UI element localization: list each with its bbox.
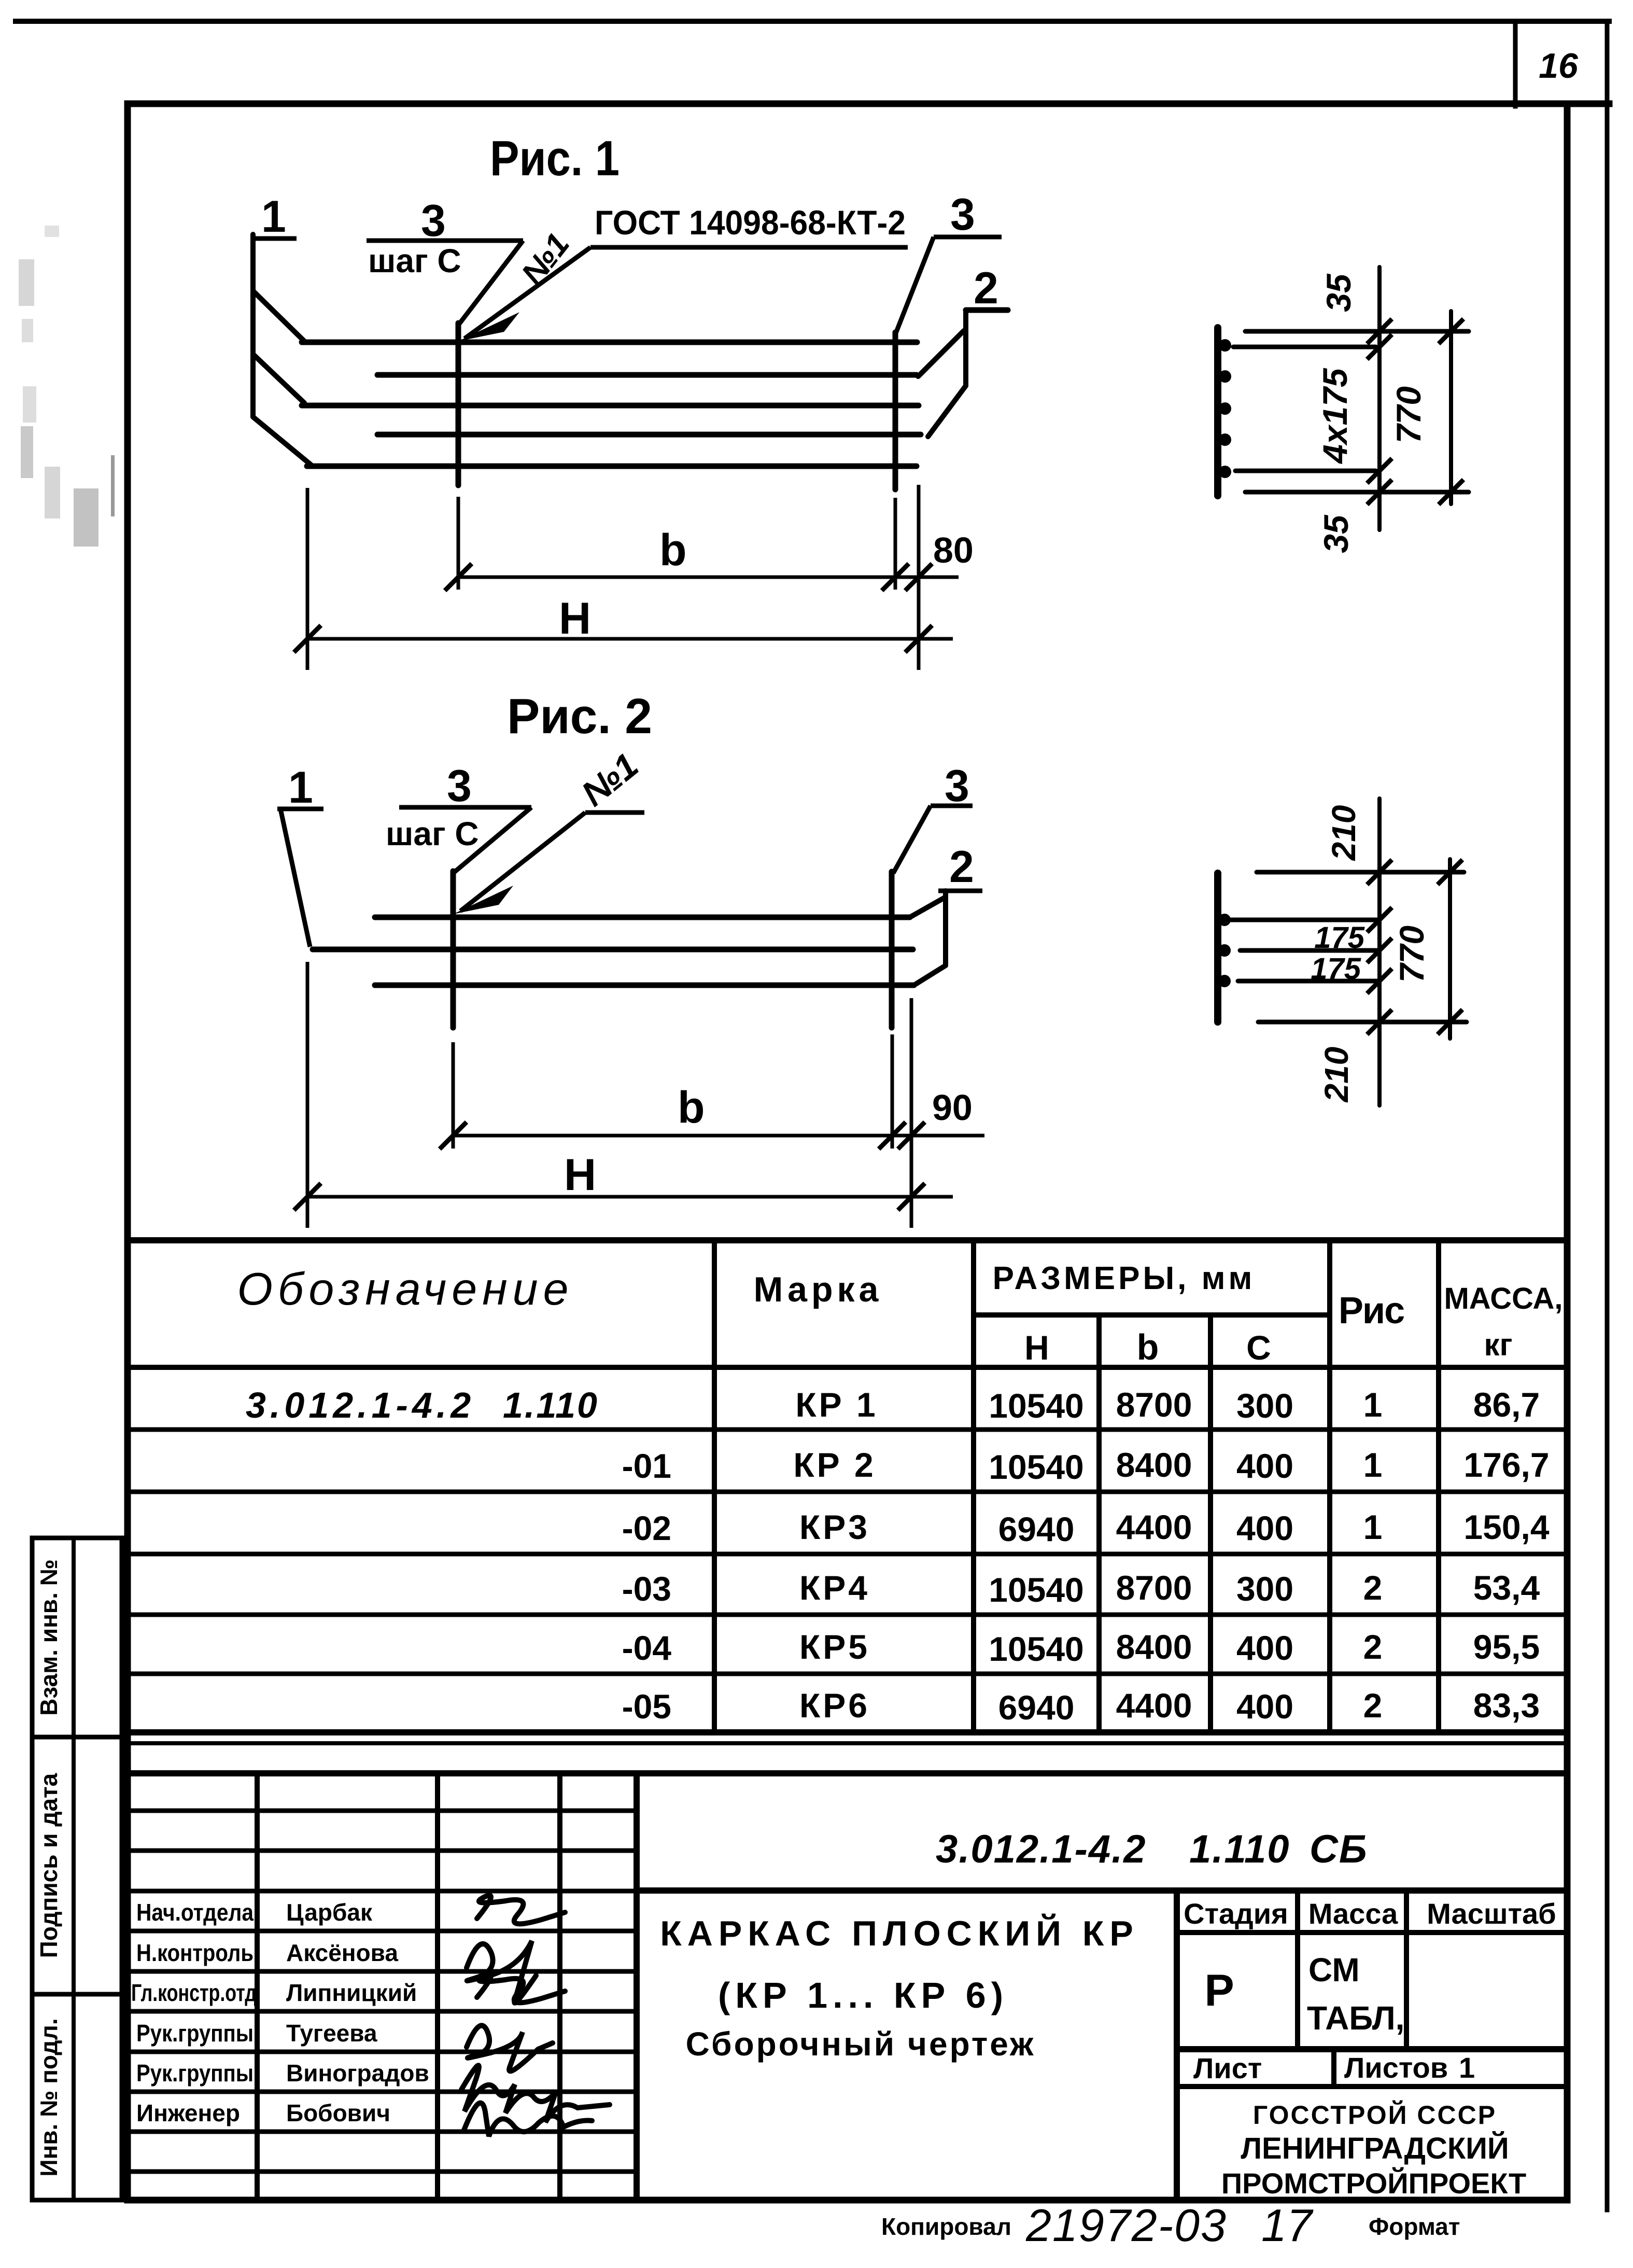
tick H right (fig1) (905, 625, 932, 652)
svg-text:КР3: КР3 (799, 1508, 870, 1546)
svg-text:2: 2 (1363, 1569, 1383, 1607)
row KP2 (622, 1446, 1550, 1486)
svg-text:1: 1 (1459, 2051, 1475, 2084)
tick 210 bottom (detail 2) (1367, 1010, 1392, 1034)
svg-text:175: 175 (1314, 921, 1365, 955)
tick 175 first (detail 2) (1367, 907, 1392, 932)
bottom edge line (detail 1) (1245, 490, 1469, 495)
svg-text:Взам. инв. №: Взам. инв. № (35, 1559, 62, 1716)
signoff row line 10 (128, 2169, 637, 2174)
signoff row line 9 (128, 2130, 637, 2134)
dimension line 770 (detail 2) (1448, 859, 1452, 1039)
svg-text:10540: 10540 (989, 1571, 1084, 1609)
svg-text:3: 3 (950, 190, 975, 240)
sheet number box divider (1513, 21, 1518, 106)
bar 1 hook diagonal to bar E (253, 417, 313, 466)
dimension line 210/175/175/210 (detail 2) (1377, 799, 1382, 1105)
svg-text:10540: 10540 (989, 1448, 1084, 1486)
signoff row line 6 (128, 2009, 637, 2014)
left margin cell Vzam inv (32, 1538, 122, 1737)
svg-text:3.012.1-4.2: 3.012.1-4.2 (936, 1827, 1147, 1871)
svg-text:Листов: Листов (1344, 2051, 1448, 2084)
table bottom border (128, 1729, 1567, 1735)
weld leader with arrow (fig2) (460, 813, 585, 911)
table top border (128, 1237, 1567, 1243)
svg-text:1: 1 (1363, 1385, 1383, 1424)
svg-text:770: 770 (1389, 386, 1428, 443)
svg-text:Сборочный чертеж: Сборочный чертеж (686, 2025, 1036, 2063)
bar 1 hook diagonal to bar A (253, 291, 304, 341)
svg-text:СБ: СБ (1310, 1827, 1368, 1871)
svg-text:Обозначение: Обозначение (237, 1263, 573, 1314)
svg-text:8400: 8400 (1116, 1446, 1192, 1484)
bar 2 Z diagonal upper (fig2) (910, 897, 946, 917)
tick 90 right (fig2) (898, 1122, 925, 1149)
list row bottom line (1177, 2084, 1567, 2089)
table column C/Ris (1327, 1240, 1332, 1732)
extension line 80 right (fig1) (917, 485, 921, 670)
svg-text:Царбак: Царбак (286, 1899, 373, 1926)
drawing frame bottom border (128, 2197, 1567, 2204)
line below table (128, 1741, 1567, 1745)
svg-text:ГОСТ 14098-68-КТ-2: ГОСТ 14098-68-КТ-2 (595, 203, 906, 242)
svg-text:53,4: 53,4 (1473, 1569, 1540, 1607)
svg-text:b: b (678, 1083, 705, 1132)
svg-text:1: 1 (1363, 1446, 1383, 1484)
table row line 4 (128, 1613, 1567, 1617)
tick 770 bottom (detail 2) (1438, 1010, 1462, 1034)
longitudinal bar B (fig1) (377, 372, 917, 378)
left margin cell Inv no podl (32, 1994, 122, 2200)
longitudinal bar C (fig1) (302, 403, 919, 409)
svg-text:ПРОМСТРОЙПРОЕКТ: ПРОМСТРОЙПРОЕКТ (1221, 2167, 1526, 2200)
svg-text:770: 770 (1392, 926, 1431, 983)
svg-text:1: 1 (288, 763, 313, 813)
dimension line H (fig2) (307, 1195, 953, 1199)
table column b/C (1208, 1315, 1213, 1732)
svg-text:1.110: 1.110 (1189, 1827, 1290, 1871)
svg-text:Инженер: Инженер (136, 2099, 240, 2126)
signoff column divider 1 (255, 1773, 260, 2200)
svg-text:Гл.констр.отд: Гл.констр.отд (131, 1979, 257, 2006)
signoff row line 2 (128, 1849, 637, 1853)
longitudinal bar D (fig1) (377, 432, 921, 438)
rebar row line 2 (detail 2) (1240, 948, 1379, 953)
list/listov divider (1331, 2049, 1336, 2087)
svg-text:1: 1 (261, 192, 286, 242)
transverse rod left (fig1) (456, 323, 461, 485)
signoff row line 7 (128, 2050, 637, 2054)
svg-text:21972-03: 21972-03 (1025, 2200, 1227, 2251)
svg-text:Рис. 2: Рис. 2 (507, 689, 652, 744)
row KP1 (246, 1385, 1540, 1425)
svg-text:КАРКАС ПЛОСКИЙ КР: КАРКАС ПЛОСКИЙ КР (660, 1913, 1138, 1953)
svg-text:Копировал: Копировал (881, 2213, 1011, 2240)
tick 175 second (detail 2) (1367, 938, 1392, 963)
tick bottom 35 (detail 1) (1367, 480, 1392, 505)
dimension line 770 (detail 1) (1449, 311, 1453, 504)
rebar row line 3 (detail 2) (1238, 979, 1379, 984)
svg-text:(КР 1... КР 6): (КР 1... КР 6) (718, 1975, 1008, 2015)
svg-text:Липницкий: Липницкий (286, 1979, 417, 2006)
longitudinal bar middle (fig2) (313, 947, 913, 953)
svg-text:СМ: СМ (1308, 1951, 1360, 1989)
svg-text:1: 1 (1363, 1508, 1383, 1546)
svg-text:-01: -01 (622, 1447, 671, 1485)
svg-text:2: 2 (1363, 1686, 1383, 1725)
svg-text:3: 3 (447, 761, 472, 811)
top edge line (detail 1) (1245, 329, 1469, 334)
rebar dot 2 (detail 1) (1219, 370, 1231, 383)
first rebar row line (detail 1) (1233, 345, 1376, 349)
row KP3 (622, 1508, 1550, 1548)
svg-text:КР4: КР4 (799, 1569, 870, 1607)
row KP4 (622, 1569, 1540, 1609)
svg-text:35: 35 (1319, 273, 1358, 312)
svg-text:175: 175 (1311, 952, 1361, 986)
tick 770 top (detail 2) (1438, 860, 1462, 885)
last rebar row line (detail 1) (1235, 469, 1376, 473)
svg-text:83,3: 83,3 (1473, 1686, 1540, 1725)
svg-text:300: 300 (1236, 1387, 1293, 1425)
svg-text:-04: -04 (622, 1629, 672, 1667)
tick b right (fig2) (879, 1122, 906, 1149)
svg-text:10540: 10540 (989, 1630, 1084, 1668)
bar 2 Z vertical (fig1) (963, 310, 968, 386)
svg-text:Лист: Лист (1193, 2052, 1262, 2084)
svg-text:1.110: 1.110 (503, 1385, 599, 1425)
svg-text:17: 17 (1261, 2200, 1314, 2251)
svg-text:b: b (1137, 1327, 1159, 1367)
table sizes sub-header line (974, 1312, 1330, 1318)
svg-text:10540: 10540 (989, 1387, 1084, 1425)
doc number row bottom line (637, 1887, 1567, 1894)
svg-text:4400: 4400 (1116, 1508, 1192, 1546)
tick b left (fig1) (445, 564, 472, 591)
drawing frame right border (1564, 104, 1571, 2200)
rebar dot 1 (detail 2) (1218, 914, 1231, 926)
signoff row line 8 (128, 2090, 637, 2094)
signoff row line 1 (128, 1809, 637, 1813)
page top edge line (16, 19, 1609, 24)
svg-text:95,5: 95,5 (1473, 1628, 1540, 1666)
svg-text:КР 1: КР 1 (795, 1385, 878, 1424)
tick b right (fig1) (882, 564, 909, 591)
cross-section bar (detail 2) (1214, 873, 1221, 1022)
svg-text:Марка: Марка (754, 1270, 883, 1309)
table row line 2 (128, 1490, 1567, 1494)
svg-text:-03: -03 (622, 1570, 671, 1608)
svg-text:6940: 6940 (998, 1510, 1075, 1548)
longitudinal bar 3 bottom (fig2) (375, 983, 914, 988)
svg-text:Масса: Масса (1308, 1897, 1398, 1930)
title block top border (128, 1770, 1567, 1776)
svg-text:80: 80 (933, 530, 974, 570)
longitudinal bar E (fig1) (307, 464, 917, 469)
stadiya massa masshtab section left border (1174, 1891, 1180, 2200)
svg-text:150,4: 150,4 (1463, 1508, 1549, 1546)
svg-text:400: 400 (1236, 1629, 1293, 1667)
svg-text:2: 2 (949, 842, 974, 892)
longitudinal bar 1 top (fig2) (375, 915, 910, 920)
bar 2 Z diagonal lower (fig2) (914, 965, 946, 985)
table row line 5 (128, 1672, 1567, 1676)
rebar dot 5 (detail 1) (1219, 466, 1231, 478)
cross-section bar (detail 1) (1214, 328, 1221, 496)
svg-text:Рук.группы: Рук.группы (136, 2020, 254, 2047)
drawing frame top border (128, 101, 1609, 107)
extension line b right (fig1) (894, 498, 897, 590)
bar 1 hook vertical (fig1) (250, 234, 256, 417)
tick H left (fig2) (294, 1183, 321, 1210)
svg-text:Аксёнова: Аксёнова (286, 1939, 398, 1966)
svg-text:400: 400 (1236, 1687, 1293, 1726)
svg-text:Рис: Рис (1339, 1290, 1404, 1332)
svg-text:КР6: КР6 (799, 1686, 870, 1725)
tick 80 right (fig1) (905, 564, 932, 591)
dimension line b (fig1) (458, 576, 959, 579)
svg-text:300: 300 (1236, 1570, 1293, 1608)
tick 4x175 bottom (detail 1) (1367, 458, 1392, 483)
svg-text:Н: Н (564, 1150, 596, 1200)
extension line H left (fig2) (306, 962, 309, 1228)
svg-text:Масштаб: Масштаб (1427, 1897, 1556, 1930)
svg-text:Бобович: Бобович (286, 2099, 390, 2126)
rebar dot 1 (detail 1) (1219, 339, 1231, 352)
svg-text:Н: Н (1024, 1328, 1049, 1367)
massa/masshtab divider (1404, 1891, 1409, 2049)
svg-text:Формат: Формат (1369, 2213, 1460, 2240)
svg-text:кг: кг (1484, 1327, 1512, 1362)
svg-text:Виноградов: Виноградов (286, 2060, 429, 2087)
transverse rod right (fig1) (893, 332, 898, 489)
svg-text:b: b (659, 525, 687, 575)
svg-text:Рис. 1: Рис. 1 (490, 131, 620, 186)
stadiya/massa divider (1295, 1891, 1300, 2049)
bar 2 Z diagonal lower (fig1) (928, 386, 966, 437)
svg-text:Стадия: Стадия (1184, 1897, 1288, 1930)
extension line b left (fig1) (457, 497, 460, 590)
signoff job titles and names (131, 1899, 429, 2126)
svg-text:Н: Н (559, 594, 591, 643)
transverse rod right (fig2) (889, 872, 895, 1028)
left margin cell Podpis i data (32, 1737, 122, 1994)
title block main left border (634, 1773, 640, 2200)
rebar dot 4 (detail 1) (1219, 433, 1231, 446)
rebar dot 3 (detail 1) (1219, 402, 1231, 415)
tick 210 top (detail 2) (1367, 860, 1392, 885)
svg-text:8700: 8700 (1116, 1385, 1192, 1424)
svg-text:210: 210 (1318, 1047, 1355, 1103)
transverse rod left (fig2) (451, 871, 456, 1028)
svg-text:-05: -05 (622, 1687, 671, 1726)
svg-text:шаг С: шаг С (368, 242, 461, 279)
svg-text:Рук.группы: Рук.группы (136, 2060, 254, 2087)
top edge line (detail 2) (1257, 870, 1464, 875)
svg-text:шаг С: шаг С (386, 815, 479, 852)
drawing frame left border (124, 104, 131, 2200)
svg-text:2: 2 (1363, 1628, 1383, 1666)
leader 1 to bar (fig2) (280, 809, 310, 947)
svg-text:4х175: 4х175 (1316, 368, 1354, 465)
row KP6 (622, 1686, 1540, 1727)
dimension line b (fig2) (453, 1134, 984, 1138)
table column Marka/Razmery (971, 1240, 976, 1732)
svg-text:35: 35 (1317, 514, 1355, 553)
tick 770 top (detail 1) (1439, 319, 1463, 344)
svg-text:210: 210 (1325, 805, 1362, 861)
svg-text:Н.контроль: Н.контроль (136, 1939, 254, 1966)
stadiya section bottom line (1177, 2046, 1567, 2052)
bar 2 Z vertical (fig2) (943, 891, 948, 965)
svg-text:Тугеева: Тугеева (286, 2020, 377, 2047)
svg-text:90: 90 (932, 1087, 973, 1128)
svg-text:КР 2: КР 2 (793, 1446, 876, 1484)
tick 175 third (detail 2) (1367, 969, 1392, 993)
svg-text:Р: Р (1204, 1966, 1234, 2015)
svg-text:-02: -02 (622, 1509, 671, 1547)
dimension line H (fig1) (307, 637, 953, 641)
svg-text:Инв. № подл.: Инв. № подл. (35, 2018, 62, 2176)
rebar dot 3 (detail 2) (1218, 975, 1231, 987)
table row line 1 (128, 1427, 1567, 1432)
svg-text:Нач.отдела: Нач.отдела (136, 1899, 254, 1926)
svg-text:КР5: КР5 (799, 1628, 870, 1666)
page right edge line (1605, 21, 1610, 2210)
svg-text:400: 400 (1236, 1509, 1293, 1547)
svg-text:ТАБЛ,: ТАБЛ, (1307, 1999, 1404, 2037)
tick H left (fig1) (294, 625, 321, 652)
tick H right (fig2) (898, 1183, 925, 1210)
svg-text:РАЗМЕРЫ, мм: РАЗМЕРЫ, мм (993, 1261, 1256, 1296)
extension line 90 right (fig2) (910, 998, 913, 1228)
extension line b left (fig2) (452, 1042, 455, 1149)
row KP5 (622, 1628, 1540, 1668)
table column H/b (1096, 1315, 1102, 1732)
svg-text:176,7: 176,7 (1463, 1446, 1549, 1484)
table header bottom line (128, 1365, 1567, 1370)
tick b left (fig2) (440, 1122, 467, 1149)
svg-text:ГОССТРОЙ СССР: ГОССТРОЙ СССР (1253, 2100, 1497, 2130)
svg-text:С: С (1246, 1328, 1271, 1367)
svg-text:86,7: 86,7 (1473, 1385, 1540, 1424)
signoff row line 5 (128, 1969, 637, 1974)
extension line H left (fig1) (306, 488, 309, 670)
longitudinal bar A (fig1) (302, 340, 917, 345)
bar 1 hook diagonal to bar C (253, 354, 304, 403)
table column Ris/Massa (1436, 1240, 1441, 1732)
header row bottom line (1177, 1930, 1567, 1935)
signoff row line 3 (128, 1889, 637, 1894)
svg-text:8400: 8400 (1116, 1628, 1192, 1666)
svg-text:3.012.1-4.2: 3.012.1-4.2 (246, 1385, 475, 1425)
svg-text:400: 400 (1236, 1447, 1293, 1485)
bar 2 Z top stroke (fig1) (966, 307, 1008, 313)
rebar row line 1 (detail 2) (1231, 918, 1379, 922)
weld leader with arrow (fig1) (464, 247, 590, 339)
svg-text:ЛЕНИНГРАДСКИЙ: ЛЕНИНГРАДСКИЙ (1241, 2132, 1509, 2165)
signoff column divider 2 (435, 1773, 440, 2200)
svg-text:Подпись и дата: Подпись и дата (35, 1773, 62, 1958)
svg-text:4400: 4400 (1116, 1686, 1192, 1725)
signoff row line 4 (128, 1929, 637, 1934)
svg-text:2: 2 (974, 263, 998, 313)
signoff column divider 3 (557, 1773, 562, 2200)
bottom edge line (detail 2) (1258, 1020, 1467, 1025)
svg-text:16: 16 (1539, 46, 1579, 86)
tick 770 bottom (detail 1) (1439, 480, 1463, 505)
extension line b right (fig2) (891, 1034, 894, 1149)
tick top 35 lower (detail 1) (1367, 334, 1392, 359)
svg-text:МАССА,: МАССА, (1444, 1282, 1562, 1315)
table row line 3 (128, 1552, 1567, 1557)
faint scan artifacts left margin (19, 226, 115, 547)
svg-text:6940: 6940 (998, 1688, 1075, 1727)
signature scribbles (461, 1896, 610, 2136)
tick top 35 upper (detail 1) (1367, 319, 1392, 344)
rebar dot 2 (detail 2) (1218, 944, 1231, 957)
svg-text:8700: 8700 (1116, 1569, 1192, 1607)
table column Oboznachenie/Marka (712, 1240, 717, 1732)
bar 2 Z diagonal upper (fig1) (918, 331, 964, 376)
dimension line 35/4x175/35 (detail 1) (1377, 267, 1382, 530)
